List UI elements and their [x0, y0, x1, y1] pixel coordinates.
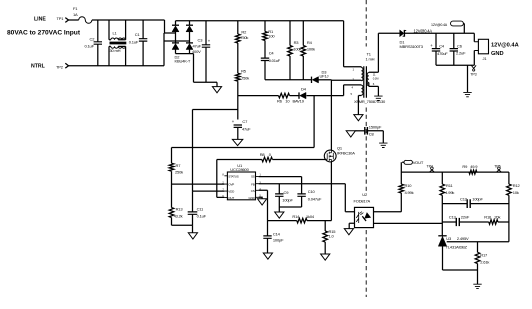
transistor Q1 [324, 150, 336, 162]
resistor R15 [323, 231, 328, 242]
svg-text:R10: R10 [405, 183, 413, 188]
capacitor C12 [467, 199, 470, 208]
wire aux pin5 to ground [358, 95, 361, 115]
svg-text:100k: 100k [307, 47, 315, 52]
svg-text:C14: C14 [273, 231, 281, 236]
svg-text:0.1uF: 0.1uF [197, 213, 207, 218]
wire aux rect rail [238, 95, 344, 97]
svg-text:GND: GND [491, 51, 504, 57]
wire clamp rail [265, 79, 312, 81]
wire C3 branch [205, 21, 207, 83]
svg-text:12V@0.4A: 12V@0.4A [491, 43, 519, 49]
svg-text:250k: 250k [175, 169, 183, 174]
svg-text:UF1J: UF1J [320, 73, 329, 78]
svg-text:1500pF: 1500pF [369, 124, 382, 129]
svg-text:TP3: TP3 [470, 72, 476, 76]
svg-text:VOUT: VOUT [413, 160, 424, 165]
svg-text:OUT: OUT [228, 196, 234, 200]
diode D2c [172, 42, 179, 44]
capacitor C5 [432, 49, 440, 51]
transformer T1 primary winding [361, 68, 363, 81]
wire C8 right [367, 131, 383, 143]
svg-text:100pF: 100pF [472, 197, 483, 202]
svg-text:0.1uF: 0.1uF [129, 40, 139, 45]
wire bridge negative [194, 54, 218, 83]
capacitor C9 [275, 194, 283, 196]
svg-text:IRFBC30A: IRFBC30A [337, 151, 355, 156]
wire C6 branch [453, 33, 455, 65]
wire SSFB gnd rail [279, 207, 301, 212]
wire C9 branch [278, 184, 280, 207]
svg-text:470uF: 470uF [437, 51, 448, 56]
wire C2 branch [97, 20, 99, 66]
svg-text:0.1M: 0.1M [373, 76, 379, 80]
svg-text:22nF: 22nF [461, 214, 470, 219]
ground primary bridge [216, 82, 218, 86]
ground C7 [232, 139, 242, 145]
ground secondary reg [473, 284, 481, 288]
wire OVP node [172, 171, 225, 207]
diode D2a [172, 24, 179, 26]
svg-text:47uF: 47uF [193, 43, 202, 48]
capacitor C2 [94, 42, 102, 44]
wire R2-R5 chain [237, 21, 239, 120]
wire FB link [259, 183, 346, 185]
ground U1 GND pin [259, 197, 263, 199]
wire VDD pin link [193, 190, 225, 192]
transformer T1 core [364, 66, 367, 97]
wire C12 rail [442, 203, 509, 205]
svg-text:49.9: 49.9 [470, 164, 478, 169]
wire L1 right [118, 20, 125, 66]
capacitor C14 [263, 236, 271, 238]
svg-text:TL431AIDBZ: TL431AIDBZ [446, 244, 468, 249]
wire R11 branch [441, 172, 443, 236]
wire VDD feed [193, 110, 238, 192]
fuse F1 [79, 17, 92, 24]
wire output return rail [436, 64, 474, 66]
resistor R3 [288, 46, 293, 57]
wire R10 bottom [400, 193, 402, 212]
wire CS pin link [259, 190, 268, 220]
wire secondary out [378, 32, 399, 34]
resistor R12 [507, 184, 512, 195]
resistor R9 [469, 170, 477, 174]
svg-text:10k: 10k [513, 190, 519, 195]
transformer T1 secondary winding [367, 73, 369, 86]
net flag 12V output [450, 21, 463, 26]
wire opto anode [374, 211, 402, 213]
wire C5 branch [435, 33, 437, 65]
svg-text:100: 100 [268, 33, 275, 38]
resistor R6 [279, 93, 290, 98]
svg-text:30 mH: 30 mH [110, 48, 121, 53]
wire C11 branch [192, 191, 194, 225]
wire 12V rail [404, 32, 474, 34]
svg-text:C12: C12 [460, 197, 468, 202]
wire U3 anode [443, 246, 478, 270]
svg-text:C13: C13 [449, 214, 457, 219]
wire C8 left [355, 130, 364, 132]
ground R15 [321, 254, 330, 260]
svg-text:2.2uF: 2.2uF [456, 50, 466, 55]
svg-text:LINE: LINE [34, 17, 46, 23]
wire bridge legs [176, 21, 194, 54]
ground opto emitter [344, 229, 353, 235]
ground C8 primary side [346, 131, 355, 137]
svg-text:1k04: 1k04 [306, 214, 315, 219]
svg-text:750k: 750k [241, 76, 249, 81]
diode D2d [186, 42, 193, 44]
wire aux pin4 [344, 85, 362, 96]
capacitor C8 [365, 127, 368, 135]
svg-text:2.495V: 2.495V [457, 236, 469, 241]
capacitor C13 [456, 218, 459, 226]
resistor R2 [236, 34, 241, 43]
svg-text:TP2: TP2 [56, 65, 64, 70]
capacitor C1 [139, 39, 147, 41]
svg-text:BAV19: BAV19 [293, 98, 305, 103]
svg-text:R14: R14 [292, 214, 300, 219]
capacitor C3 [202, 45, 210, 47]
wire opto emitter gnd [349, 223, 354, 228]
test point TP2 [65, 63, 68, 68]
wire comp rail [442, 221, 509, 223]
wire R17 branch [477, 242, 479, 284]
ground C9 C10 [275, 212, 284, 218]
wire bridge AC1 feed [165, 20, 176, 33]
svg-text:750k: 750k [240, 35, 248, 40]
wire LINE input [69, 19, 110, 21]
wire B+ rail [176, 20, 344, 22]
svg-text:80VAC to 270VAC Input: 80VAC to 270VAC Input [7, 29, 81, 36]
wire opto cathode [374, 222, 443, 224]
wire 12V flag link [462, 24, 465, 34]
resistor R11 [440, 184, 445, 195]
svg-text:1A: 1A [73, 12, 78, 17]
svg-text:100pF: 100pF [273, 238, 284, 243]
ground C14 [263, 253, 272, 259]
wire R12 branch [508, 172, 510, 242]
op-amp U1 UCC28600 [227, 172, 255, 200]
inductor L1 [111, 38, 126, 40]
svg-text:12V@0.4A: 12V@0.4A [414, 28, 433, 33]
svg-text:R16: R16 [484, 214, 492, 219]
resistor R4 [301, 46, 306, 57]
resistor R17 [475, 252, 480, 263]
wire C1 branch [142, 20, 144, 66]
svg-text:VDD: VDD [228, 190, 235, 194]
ground output return [463, 92, 471, 96]
isolation boundary dashed line [365, 0, 367, 297]
op-amp U3 TL431 [438, 235, 446, 237]
wire primary pin3 to drain [331, 79, 361, 81]
wire C14 branch [267, 221, 269, 253]
ground C8 secondary side [379, 143, 387, 147]
wire FB to opto [345, 184, 354, 212]
capacitor C10 [297, 194, 305, 196]
svg-text:NTRL: NTRL [31, 64, 46, 70]
svg-text:R11: R11 [446, 183, 453, 188]
test point TP3 [471, 65, 476, 69]
diode D3 [311, 77, 313, 83]
wire secondary pin bottom [369, 83, 379, 97]
wire aux sense [172, 96, 315, 164]
svg-text:R15: R15 [329, 229, 337, 234]
wire C10 branch [301, 177, 303, 207]
wire OVP gnd rail [172, 218, 193, 233]
wire fb rail [401, 171, 509, 173]
connector J1 [478, 39, 488, 54]
svg-text:OVP: OVP [228, 183, 234, 187]
wire return to ground [467, 65, 469, 92]
svg-text:FB: FB [251, 182, 255, 186]
capacitor C4 [261, 58, 269, 60]
test point TP1 [65, 18, 68, 23]
wire C7 lower lead [237, 127, 239, 139]
resistor R5 [236, 73, 241, 81]
svg-text:C11: C11 [197, 207, 204, 212]
svg-text:STATUS: STATUS [228, 174, 238, 178]
wire source [330, 162, 332, 221]
svg-text:4.99k: 4.99k [405, 190, 414, 195]
svg-text:0.1uF: 0.1uF [85, 43, 95, 48]
svg-text:4.99k: 4.99k [445, 190, 454, 195]
resistor R1 [263, 32, 268, 41]
svg-text:0.01uF: 0.01uF [269, 58, 281, 63]
wire U3 ref [447, 241, 509, 243]
svg-text:GND: GND [248, 196, 255, 200]
diode D4 [298, 92, 300, 98]
svg-text:SS: SS [251, 174, 255, 178]
net flag VOUT [404, 160, 412, 164]
wire secondary pin top [369, 33, 379, 72]
svg-text:FOD817A: FOD817A [354, 198, 371, 203]
wire B+ to primary pin1 [344, 21, 362, 68]
wire NTRL input [68, 65, 164, 67]
wire SS link [259, 176, 302, 178]
svg-text:1 mH: 1 mH [366, 57, 375, 62]
ground secondary winding [374, 96, 382, 100]
resistor R14 [297, 218, 307, 223]
diode D2b [186, 24, 193, 26]
svg-text:2.61k: 2.61k [480, 259, 489, 264]
wire CS filter rail [268, 220, 332, 222]
svg-text:C10: C10 [308, 189, 316, 194]
svg-text:400V: 400V [192, 49, 201, 54]
svg-text:TP4: TP4 [427, 164, 433, 168]
ground OVP divider [188, 233, 197, 239]
wire OUT to gate [217, 160, 327, 198]
resistor R8 [262, 157, 273, 162]
capacitor C7 [234, 125, 242, 127]
svg-text:TP1: TP1 [57, 16, 65, 21]
wire R1-C4 branch [264, 21, 266, 80]
ground aux winding [354, 115, 363, 121]
resistor R16 [489, 220, 498, 225]
wire R3 branch [289, 21, 291, 80]
wire R4 branch [302, 21, 304, 80]
resistor R7 [169, 163, 174, 171]
wire J1 pin1 [473, 33, 475, 41]
wire VOUT drop [401, 162, 404, 184]
wire L1 left [109, 20, 111, 66]
wire drain [330, 80, 332, 150]
wire AC top rail [109, 19, 165, 21]
svg-text:R17: R17 [480, 253, 488, 258]
resistor R10 [399, 184, 404, 193]
svg-text:100k: 100k [293, 47, 301, 52]
wire bridge AC2 feed [164, 33, 190, 66]
op-amp U2 optocoupler [355, 207, 374, 227]
wire J1 pin2 [473, 51, 475, 66]
svg-text:12V@0.4A: 12V@0.4A [431, 23, 448, 27]
wire D3 to drain [319, 79, 332, 81]
capacitor C11 [188, 212, 198, 214]
transformer T1 aux winding [361, 85, 363, 95]
svg-text:KBU4K-T: KBU4K-T [175, 59, 191, 64]
wire R15 branch [324, 221, 326, 254]
svg-text:20k: 20k [494, 214, 500, 219]
resistor R13 [169, 208, 174, 218]
svg-text:100pF: 100pF [282, 198, 293, 203]
diode D1 [403, 30, 405, 37]
svg-text:CS: CS [251, 189, 255, 193]
capacitor C6 [450, 49, 458, 51]
svg-text:MBRS3100T3: MBRS3100T3 [400, 44, 424, 49]
svg-text:0.047uF: 0.047uF [308, 197, 322, 202]
svg-text:47uF: 47uF [242, 126, 251, 131]
svg-text:43.2k: 43.2k [174, 213, 183, 218]
svg-text:R13: R13 [176, 207, 184, 212]
svg-text:R12: R12 [513, 183, 521, 188]
svg-text:UCC28600: UCC28600 [230, 167, 249, 172]
